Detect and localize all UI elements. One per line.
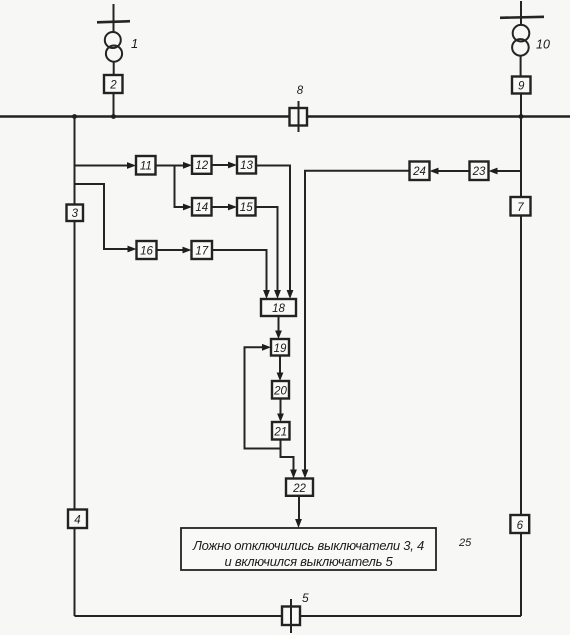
svg-text:8: 8: [297, 85, 304, 97]
wire: 13 output right then down to 18: [256, 166, 290, 292]
svg-text:2: 2: [109, 80, 117, 92]
block 16: [137, 241, 157, 259]
svg-text:6: 6: [517, 520, 524, 532]
wire: right feeder drop (x=521 from top to bus): [520, 1, 522, 117]
node: bus junction left tie: [72, 114, 77, 119]
breaker 4: [68, 510, 87, 529]
breaker 6: [510, 515, 529, 533]
wire: left tie line (x=74.5, bus to bottom): [74, 117, 76, 617]
svg-text:14: 14: [195, 202, 208, 214]
svg-text:18: 18: [272, 303, 285, 315]
block 13: [237, 157, 256, 174]
wire: 23 to 24: [438, 170, 470, 172]
block 12: [192, 156, 212, 174]
wire: 15 output right then down to 18: [256, 207, 278, 291]
block 25 (output statement box): [181, 528, 436, 570]
svg-text:20: 20: [273, 386, 287, 398]
svg-text:1: 1: [131, 36, 138, 51]
transformer 1 (two overlapping circles): [105, 32, 121, 48]
svg-text:21: 21: [273, 427, 287, 439]
wire: 11 to 12: [156, 165, 185, 167]
wire: 18 to 19: [278, 316, 280, 331]
svg-text:12: 12: [195, 160, 208, 172]
wire: left tie to block 11: [75, 165, 129, 167]
svg-text:10: 10: [536, 38, 550, 52]
block 23: [470, 162, 489, 181]
block 17: [192, 241, 213, 259]
wire: right tie line (x=521, bus to bottom): [520, 117, 522, 617]
breaker 9: [512, 77, 531, 94]
block 19: [271, 339, 289, 356]
node: bus junction feeder 2: [111, 114, 116, 119]
wire: 21 output down, jog right, into 22: [281, 440, 294, 471]
block 11: [136, 156, 156, 175]
wire: bottom tie (y=616): [75, 615, 522, 617]
svg-text:Ложно отключились выключатели: Ложно отключились выключатели 3, 4: [192, 538, 424, 553]
wire: left feeder drop (x=113.5 from top to bus): [113, 4, 115, 117]
breaker 2: [104, 75, 123, 93]
svg-text:11: 11: [140, 161, 152, 173]
wire: 14 to 15: [212, 206, 230, 208]
svg-text:7: 7: [517, 202, 524, 214]
block 15: [237, 198, 256, 216]
block 18: [261, 299, 296, 316]
block 14: [192, 198, 212, 216]
block 21: [272, 422, 290, 440]
svg-text:9: 9: [518, 81, 525, 93]
svg-text:19: 19: [274, 343, 287, 355]
wire: 20 to 21: [280, 399, 282, 415]
breaker 3: [67, 205, 84, 222]
wire: 17 output right then down to 18: [212, 250, 267, 291]
block 20: [272, 381, 289, 399]
svg-text:15: 15: [240, 202, 253, 214]
wire: right tie to block 23: [497, 170, 521, 172]
wire: 24 output left then long drop down to 22: [305, 171, 410, 470]
block 24: [410, 162, 430, 181]
svg-text:3: 3: [72, 208, 79, 220]
wire: feedback from 21 output back to 19 input: [245, 347, 281, 448]
svg-text:и включился выключатель 5: и включился выключатель 5: [225, 554, 394, 569]
svg-text:4: 4: [74, 515, 80, 527]
power source symbol right (system crossbar): [500, 17, 544, 18]
transformer 10 (two overlapping circles): [513, 25, 530, 42]
wire: 12 to 13: [212, 164, 230, 166]
wire: 22 down to statement box 25: [298, 496, 300, 520]
svg-text:25: 25: [458, 537, 472, 549]
node: bus junction right tie: [519, 114, 524, 119]
breaker 5 (tie breaker on bottom line): [282, 607, 300, 626]
wire: busbar (horizontal bus, full width): [0, 115, 570, 117]
svg-text:24: 24: [412, 166, 426, 178]
wire: tee from 11-12 wire down to 14: [175, 166, 185, 208]
svg-text:23: 23: [472, 166, 486, 178]
breaker 8 (bus sectionalizing breaker on bus): [290, 108, 308, 126]
svg-text:5: 5: [302, 591, 309, 605]
svg-text:13: 13: [240, 160, 253, 172]
wire: left tie branch down to 16: [75, 184, 129, 249]
power source symbol left (system crossbar): [97, 21, 130, 22]
svg-text:17: 17: [195, 246, 208, 258]
breaker 7: [511, 197, 531, 216]
svg-text:22: 22: [292, 483, 306, 495]
wire: 19 to 20: [279, 356, 281, 374]
block 22: [286, 479, 313, 496]
svg-text:16: 16: [140, 246, 153, 258]
wire: 16 to 17: [157, 249, 184, 251]
